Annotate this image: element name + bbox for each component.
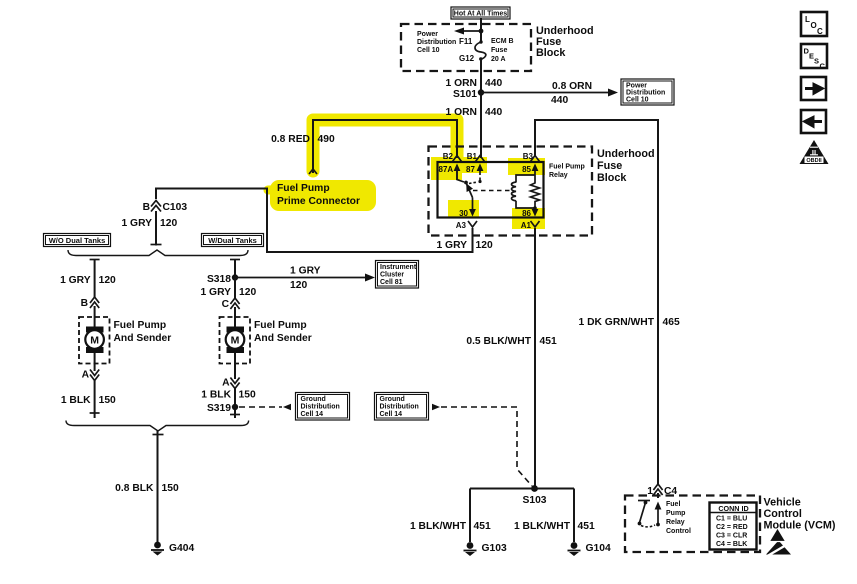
svg-text:M: M [90, 335, 99, 347]
svg-text:Vehicle: Vehicle [764, 497, 801, 509]
label Hot At All Times [451, 7, 510, 19]
svg-text:C: C [222, 299, 230, 310]
label Vehicle Control Module (VCM) [764, 497, 836, 532]
svg-text:0.8 ORN: 0.8 ORN [552, 81, 592, 92]
label Power Distribution Cell 10 (in fuse block) [417, 31, 456, 54]
svg-text:CONN ID: CONN ID [718, 504, 748, 513]
wire: fuse output down to S101 and relay pin B1 [480, 59, 482, 158]
label 1 ORN 440 (below S101) [446, 107, 503, 118]
label W/Dual Tanks box [202, 234, 264, 247]
label 1 BLK/WHT 451 (left) [410, 521, 491, 532]
icon forward arrow button [801, 77, 826, 100]
svg-text:85: 85 [522, 165, 531, 174]
ground G404 [151, 542, 194, 556]
label 0.5 BLK/WHT 451 [466, 336, 557, 347]
svg-text:S318: S318 [207, 274, 231, 285]
label Power Distribution Cell 10 box (right) [621, 79, 674, 105]
wire: S103 to G103 [469, 489, 471, 543]
label Ground Distribution Cell 14 box (right) [375, 393, 429, 421]
label 1 BLK 150 (right) [201, 390, 256, 401]
svg-text:87: 87 [466, 165, 475, 174]
svg-text:G104: G104 [586, 543, 611, 554]
CONN ID table [710, 503, 757, 550]
wire: S318 to instrument cluster (arrow right) [235, 266, 375, 292]
label Instrument Cluster Cell 81 box [376, 261, 419, 289]
ESD sensitive symbol (VCM) [766, 529, 793, 557]
merge brace (lower) [66, 421, 249, 432]
node S318 [207, 260, 240, 286]
wire: S103 to G104 [573, 489, 575, 543]
svg-text:0.5 BLK/WHT: 0.5 BLK/WHT [466, 336, 531, 347]
svg-text:440: 440 [485, 78, 502, 89]
pin A3 [456, 221, 477, 230]
wire: S318 down to pump C [234, 278, 236, 299]
svg-text:Fuse: Fuse [491, 47, 507, 54]
svg-text:1 GRY: 1 GRY [436, 240, 467, 251]
svg-text:1 ORN: 1 ORN [446, 107, 477, 118]
svg-text:Pump: Pump [666, 510, 685, 517]
relay switch blade (30 to 87A) [457, 166, 478, 198]
node S319 [207, 388, 240, 418]
label Fuel Pump Relay [549, 164, 585, 180]
pin B1 [467, 152, 485, 162]
svg-text:0.8 RED: 0.8 RED [271, 134, 310, 145]
node S101 [453, 89, 484, 100]
svg-text:1 BLK/WHT: 1 BLK/WHT [514, 521, 571, 532]
svg-text:120: 120 [160, 218, 177, 229]
svg-text:Hot At All Times: Hot At All Times [454, 11, 508, 18]
svg-text:L: L [805, 15, 810, 24]
svg-text:B: B [143, 202, 150, 213]
svg-text:G404: G404 [169, 543, 194, 554]
svg-text:1 GRY: 1 GRY [60, 275, 91, 286]
svg-text:A1: A1 [521, 221, 532, 230]
svg-text:Relay: Relay [666, 519, 685, 526]
wire: C103 down to split brace [151, 211, 162, 246]
svg-text:W/O Dual Tanks: W/O Dual Tanks [49, 236, 106, 245]
wire: relay A1 down to S103 [534, 228, 536, 486]
connector C (right pump) [222, 298, 240, 310]
underhood fuse block (top) dashed box [401, 24, 531, 71]
relay K1 Fuel Pump Relay body [438, 162, 544, 218]
svg-text:C2 = RED: C2 = RED [716, 524, 748, 531]
svg-text:0.8 BLK: 0.8 BLK [115, 483, 154, 494]
node S103 [470, 485, 574, 506]
wire into VCM (arrow up at pin) [655, 493, 662, 526]
wire: brace to G404 [153, 431, 164, 546]
relay coil [512, 175, 536, 208]
svg-text:Distribution: Distribution [417, 39, 456, 46]
svg-text:W/Dual Tanks: W/Dual Tanks [208, 236, 257, 245]
svg-text:Power: Power [626, 83, 647, 90]
svg-text:20 A: 20 A [491, 56, 506, 63]
svg-text:1 GRY: 1 GRY [290, 266, 321, 277]
svg-text:150: 150 [99, 395, 116, 406]
wire: S319 to ground distribution (dashed, arrow left) [239, 404, 291, 410]
ground G104 [568, 542, 611, 556]
svg-text:150: 150 [239, 390, 256, 401]
svg-text:S319: S319 [207, 403, 231, 414]
svg-text:1 DK GRN/WHT: 1 DK GRN/WHT [578, 317, 654, 328]
highlighter: relay pin B2/87A [431, 157, 462, 180]
fuel pump motor M2 (W/dual tanks) [220, 317, 251, 364]
wire: ground distribution to S103 (dashed, arrow right) [432, 404, 532, 486]
label Fuel Pump Prime Connector [277, 183, 360, 207]
svg-text:Instrument: Instrument [380, 264, 417, 271]
svg-text:Distribution: Distribution [626, 90, 665, 97]
pin 86 arrow [522, 208, 538, 218]
wire out of right pump [234, 353, 236, 379]
label Underhood Fuse Block (relay) [597, 148, 655, 184]
wire: fuel pump prime connector branch [309, 120, 457, 174]
svg-text:Fuel Pump: Fuel Pump [114, 320, 167, 331]
svg-text:OBDII: OBDII [806, 158, 822, 164]
svg-text:S101: S101 [453, 89, 477, 100]
wire: battery feed into fuse block [480, 18, 482, 41]
wire: relay A3 to connector C103 [156, 189, 473, 253]
svg-text:120: 120 [290, 280, 307, 291]
VCM dashed box [625, 496, 760, 553]
svg-text:B: B [81, 298, 88, 309]
svg-text:120: 120 [476, 240, 493, 251]
svg-text:Block: Block [536, 47, 566, 59]
label Fuel Pump And Sender (left) [114, 320, 172, 344]
svg-text:451: 451 [540, 336, 557, 347]
svg-text:And Sender: And Sender [254, 333, 312, 344]
highlighter: relay pin 86/A1 [512, 208, 545, 229]
wire into left pump [94, 306, 96, 327]
label 1 GRY 120 (C103) [121, 218, 177, 229]
icon LOC button [801, 12, 827, 36]
svg-text:Cell 14: Cell 14 [301, 411, 324, 418]
svg-text:Ground: Ground [380, 396, 405, 403]
pin 87 arrow [466, 164, 483, 184]
svg-text:A: A [222, 378, 230, 389]
label 1 BLK 150 (left) [61, 395, 116, 406]
svg-text:C4 = BLK: C4 = BLK [716, 541, 747, 548]
svg-text:440: 440 [551, 95, 568, 106]
highlighter: fuel pump prime connector wire trace [268, 120, 457, 211]
svg-text:C103: C103 [163, 202, 188, 213]
svg-text:Control: Control [666, 528, 691, 535]
svg-text:B2: B2 [443, 152, 454, 161]
underhood fuse block (relay) dashed box [429, 147, 593, 236]
svg-text:C3 = CLR: C3 = CLR [716, 533, 747, 540]
fuel pump motor M1 (W/O dual tanks) [79, 317, 110, 364]
svg-text:Fuel: Fuel [666, 501, 680, 508]
VCM fuel pump relay control driver switch [638, 501, 655, 527]
relay coil suppression resistor [531, 175, 540, 210]
wire: left branch (W/O dual tanks) [90, 260, 100, 298]
pin A1 [521, 221, 540, 230]
svg-text:150: 150 [162, 483, 179, 494]
label 1 GRY 120 (left branch) [60, 275, 116, 286]
svg-text:Cell 10: Cell 10 [626, 97, 649, 104]
connector C4 pin 1 [647, 484, 677, 497]
svg-text:Module (VCM): Module (VCM) [764, 520, 836, 532]
label 1 ORN 440 (above S101) [446, 78, 503, 89]
icon back arrow button [801, 110, 826, 133]
connector B (left pump) [81, 297, 100, 309]
wire: S101 to power distribution (arrow right) [481, 81, 618, 106]
label 1 GRY 120 (relay output) [436, 240, 492, 251]
svg-text:S103: S103 [522, 495, 546, 506]
connector A (left pump) [82, 370, 100, 381]
svg-text:Ground: Ground [301, 396, 326, 403]
svg-text:Cell 81: Cell 81 [380, 279, 403, 286]
svg-text:Control: Control [764, 508, 802, 520]
svg-text:C: C [820, 62, 826, 71]
label W/O Dual Tanks box [44, 234, 111, 247]
svg-text:451: 451 [474, 521, 491, 532]
label Fuel Pump And Sender (right) [254, 320, 312, 344]
svg-text:451: 451 [578, 521, 595, 532]
svg-text:A3: A3 [456, 221, 467, 230]
svg-text:30: 30 [459, 209, 468, 218]
label Fuel Pump Relay Control [666, 501, 691, 535]
svg-text:1 BLK: 1 BLK [61, 395, 91, 406]
svg-text:490: 490 [318, 134, 335, 145]
split brace (upper) [68, 250, 248, 256]
highlighter: relay pin 30 [448, 200, 479, 218]
svg-text:120: 120 [99, 275, 116, 286]
svg-text:Distribution: Distribution [380, 404, 419, 411]
svg-text:1 GRY: 1 GRY [200, 287, 231, 298]
svg-text:M: M [231, 335, 240, 347]
svg-text:87A: 87A [439, 165, 454, 174]
svg-text:ECM B: ECM B [491, 38, 514, 45]
svg-text:465: 465 [663, 317, 680, 328]
ground G103 [464, 542, 507, 556]
svg-text:A: A [82, 370, 90, 381]
connector C103 [143, 201, 188, 214]
highlighter: relay pin B1/87 [461, 157, 487, 173]
svg-text:C1 = BLU: C1 = BLU [716, 516, 747, 523]
icon DESC button [801, 44, 827, 71]
svg-text:1 GRY: 1 GRY [121, 218, 152, 229]
svg-text:Block: Block [597, 172, 627, 184]
svg-text:Fuel Pump: Fuel Pump [549, 164, 585, 171]
wire into right pump [234, 307, 236, 327]
wire: left pump to lower brace [90, 380, 100, 418]
svg-text:G103: G103 [482, 543, 507, 554]
pin 30 arrow [459, 198, 476, 219]
svg-text:Cell 10: Cell 10 [417, 47, 440, 54]
svg-text:1 BLK/WHT: 1 BLK/WHT [410, 521, 467, 532]
svg-text:Distribution: Distribution [301, 404, 340, 411]
svg-text:Fuel Pump: Fuel Pump [254, 320, 307, 331]
pin B2 [443, 152, 462, 162]
svg-text:Power: Power [417, 31, 438, 38]
svg-text:C: C [817, 27, 823, 36]
relay armature dashed link [473, 190, 512, 192]
svg-text:Relay: Relay [549, 172, 568, 179]
svg-text:And Sender: And Sender [114, 333, 172, 344]
node: tap to power distribution (arrow left) [454, 28, 483, 35]
fuse F11 ECM B 20A [459, 37, 514, 63]
label Ground Distribution Cell 14 box (left) [296, 393, 350, 421]
highlighter: relay pin B3/85 [508, 158, 545, 175]
label 1 BLK/WHT 451 (right) [514, 521, 595, 532]
svg-text:440: 440 [485, 107, 502, 118]
pin B3 [523, 152, 540, 162]
label 0.8 RED 490 [271, 134, 335, 145]
pin 85 arrow [522, 164, 538, 176]
svg-text:86: 86 [522, 209, 531, 218]
label 1 DK GRN/WHT 465 [578, 317, 679, 328]
connector A (right pump) [222, 378, 240, 389]
svg-text:G12: G12 [459, 54, 475, 63]
svg-text:Cell 14: Cell 14 [380, 411, 403, 418]
label 0.8 BLK 150 [115, 483, 179, 494]
svg-text:Prime Connector: Prime Connector [277, 196, 360, 207]
svg-text:120: 120 [239, 287, 256, 298]
svg-text:1 ORN: 1 ORN [446, 78, 477, 89]
svg-text:S: S [814, 57, 819, 66]
label 1 GRY 120 (right branch) [200, 287, 256, 298]
svg-text:Fuel Pump: Fuel Pump [277, 183, 330, 194]
label Underhood Fuse Block (top) [536, 25, 594, 59]
svg-text:II: II [812, 148, 816, 157]
svg-text:Cluster: Cluster [380, 272, 404, 279]
svg-text:F11: F11 [459, 37, 473, 46]
svg-text:O: O [811, 21, 817, 30]
svg-text:Underhood: Underhood [597, 148, 655, 160]
pin 87A arrow [439, 164, 461, 181]
svg-text:1 BLK: 1 BLK [201, 390, 231, 401]
wire: relay B3 up and over to VCM [535, 120, 658, 484]
wire out of left pump [94, 353, 96, 371]
icon OBD II symbol [800, 140, 829, 164]
svg-text:Fuse: Fuse [597, 160, 622, 172]
